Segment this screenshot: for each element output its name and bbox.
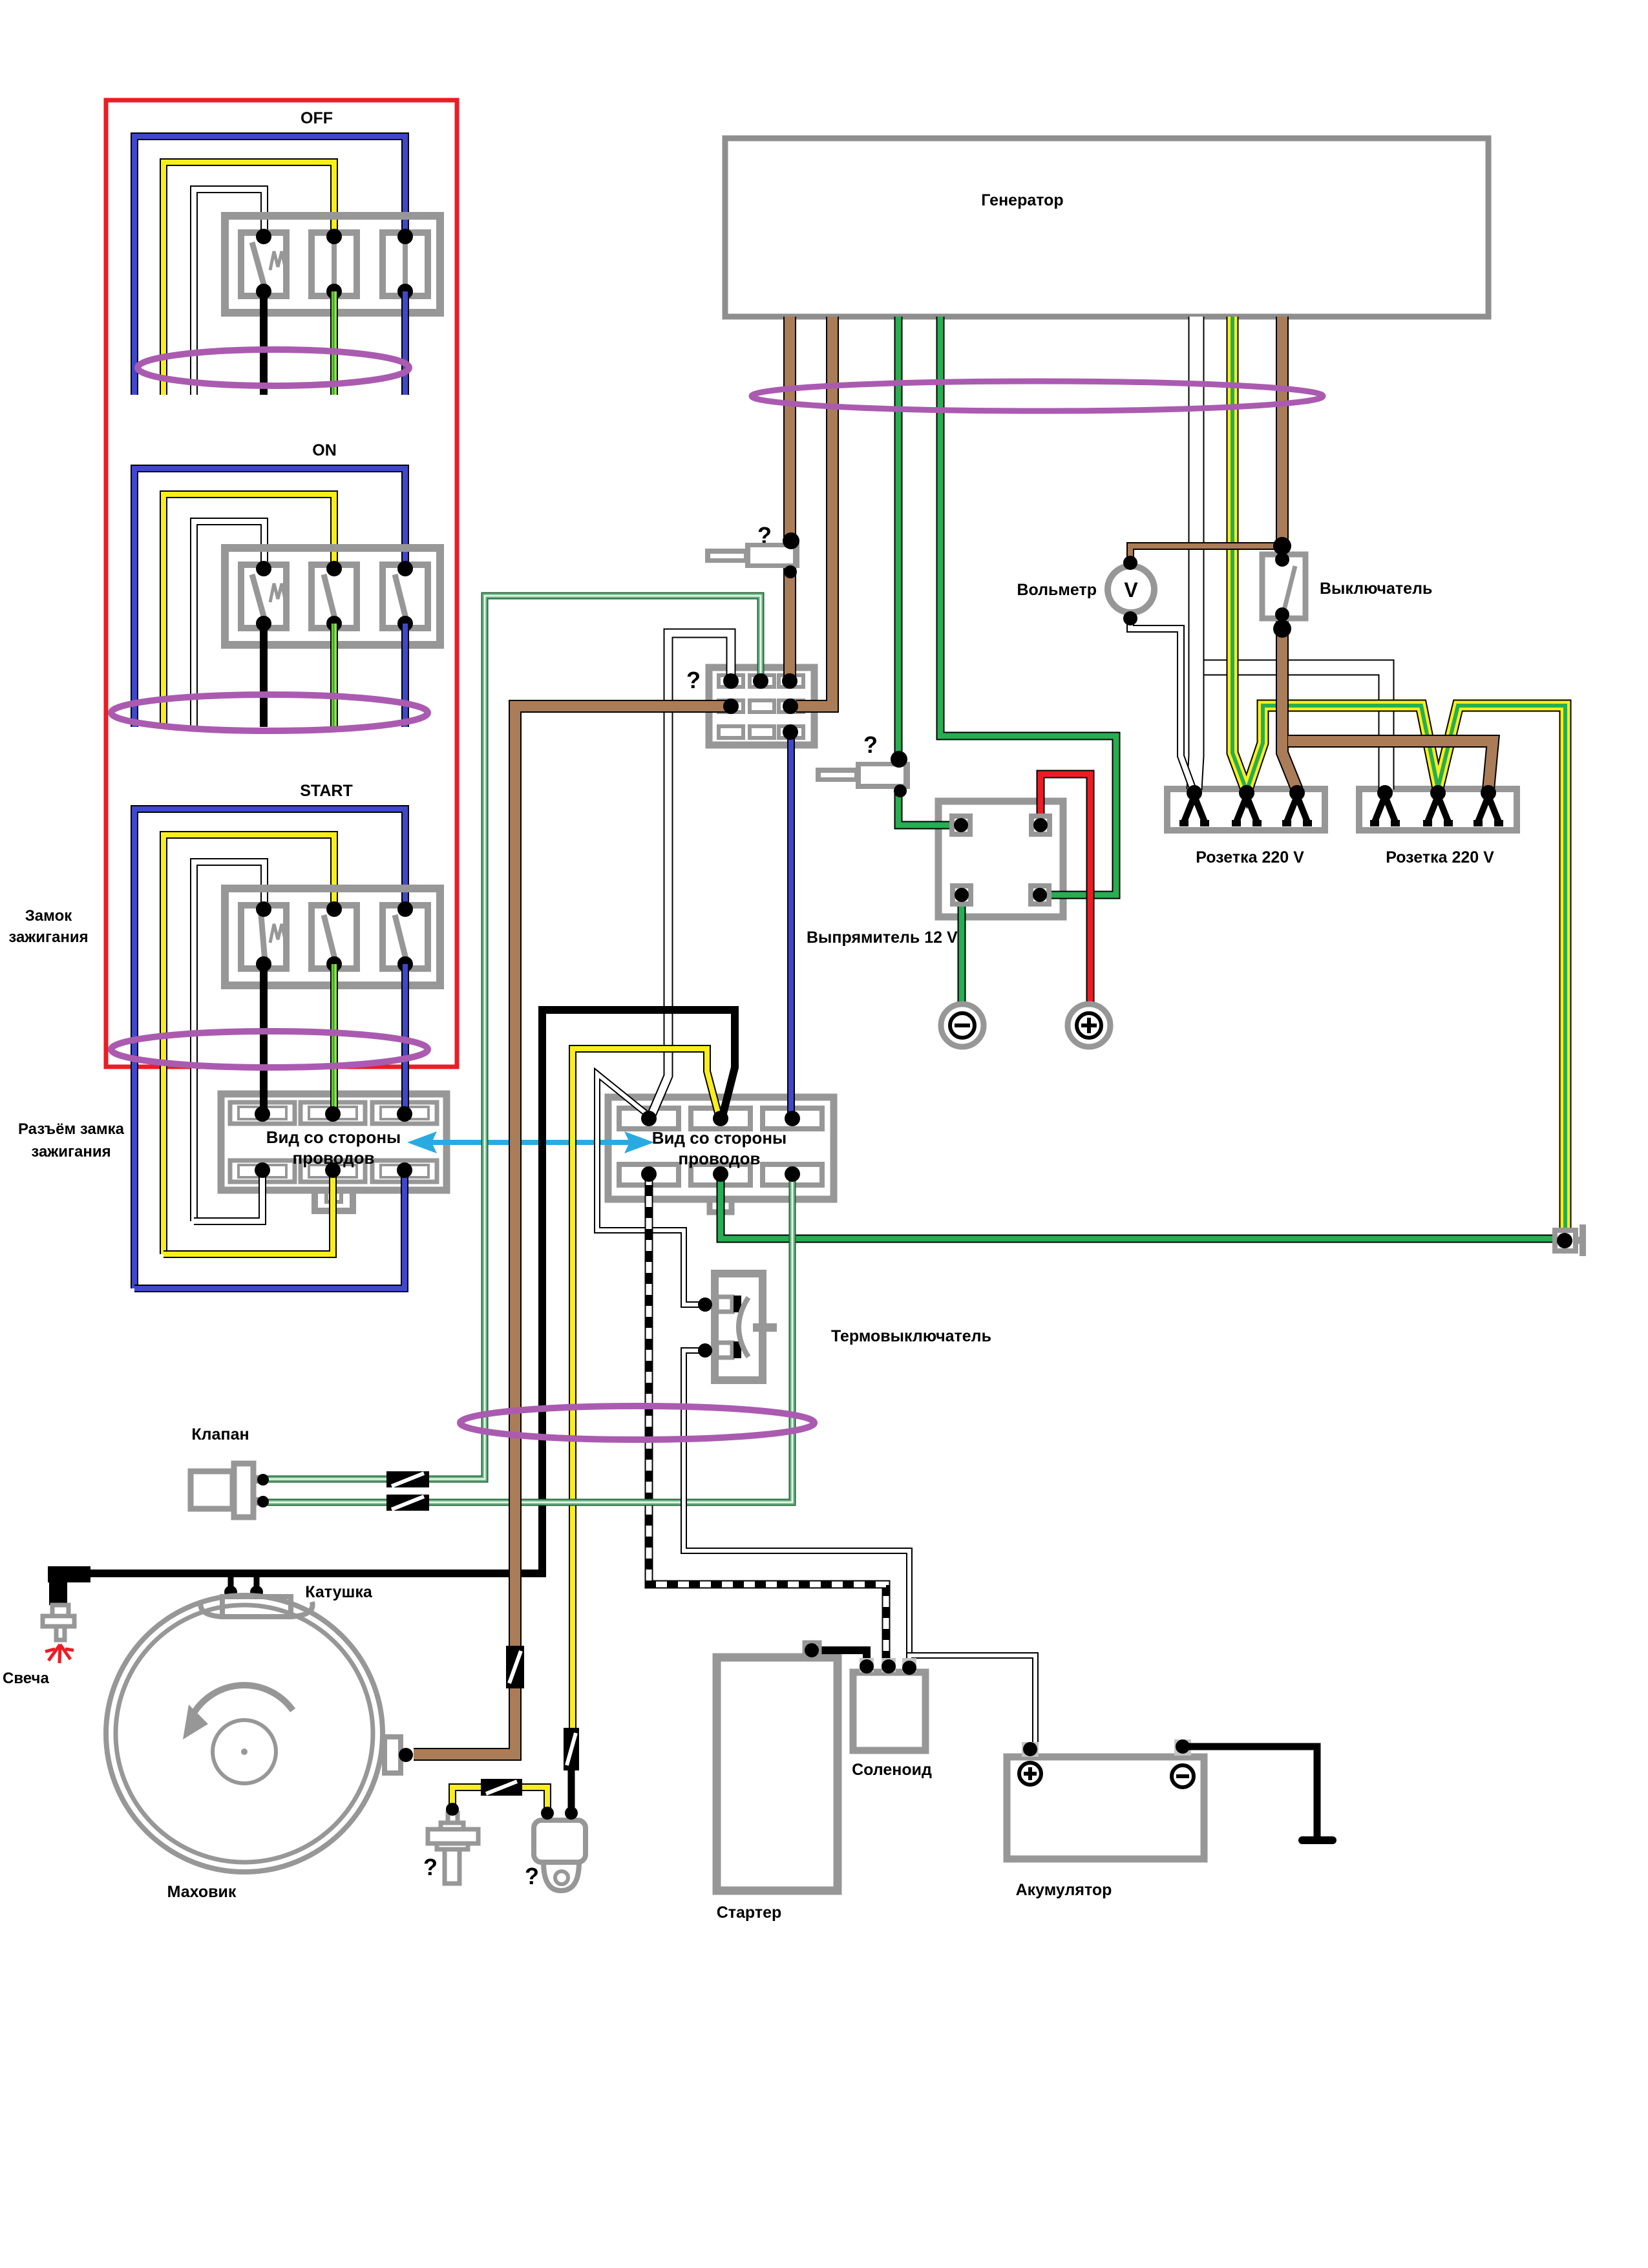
wire white voltmeter to socket1 (1130, 618, 1193, 790)
fuse on yellow wire vertical (564, 1728, 579, 1770)
label Маховик (167, 1883, 237, 1901)
oil sensor (428, 1813, 478, 1884)
wire brown 2 generator to 8pin connector (796, 317, 832, 706)
wire black from contact 1 START (260, 964, 268, 1114)
label Соленоид (852, 1761, 932, 1779)
ignition lock red frame (106, 100, 457, 1067)
label ? bullet connector 2 (863, 731, 878, 758)
coil wires down (231, 1573, 257, 1591)
wire yellow frame ON (164, 494, 334, 727)
svg-text:зажигания: зажигания (8, 929, 88, 946)
socket 1 box (1167, 789, 1325, 830)
voltmeter pins (1123, 556, 1137, 625)
fuse on valve wire 1 (386, 1471, 429, 1487)
wire white frame OFF (194, 189, 264, 395)
wire brown voltmeter to switch (1130, 546, 1282, 561)
wire brown 3 generator to switch and sockets (1282, 317, 1493, 790)
switch contact 2 START (312, 901, 357, 972)
purple harness ellipse OFF (138, 350, 409, 386)
valve pins (257, 1474, 269, 1507)
svg-text:Разъём замка: Разъём замка (18, 1120, 125, 1138)
wire yellow-green generator to sockets (1232, 317, 1565, 1232)
solenoid box (853, 1658, 925, 1750)
rectifier pins (954, 818, 1048, 902)
switch contact 1 OFF (241, 229, 286, 299)
wire pale green valve to 8pin (262, 596, 761, 1479)
switch contact 1 START (241, 901, 286, 972)
spark plug body (43, 1605, 74, 1640)
svg-text:Свеча: Свеча (3, 1670, 49, 1687)
socket 2 prongs (1370, 796, 1503, 823)
spark plug cap (48, 1566, 90, 1605)
svg-text:START: START (300, 782, 352, 800)
wire green connector2 to right connector (721, 1174, 1556, 1239)
switch Выключатель (1262, 554, 1305, 618)
switch contact 2 ON (312, 561, 357, 631)
svg-text:Стартер: Стартер (717, 1904, 782, 1922)
connector2 body (608, 1097, 834, 1199)
right connector pin (1557, 1233, 1572, 1248)
wire blue 8pin to connector2 (787, 732, 795, 1118)
label Розетка 220 V socket1 (1196, 848, 1304, 866)
connector1 label (266, 1128, 401, 1168)
8pin connector body (709, 667, 814, 745)
terminal plus (1068, 1004, 1110, 1047)
svg-text:?: ? (423, 1854, 438, 1880)
wire yellow ignition to capsule (573, 1049, 719, 1728)
switch contact 3 ON (383, 561, 428, 631)
rectifier box (938, 801, 1063, 917)
purple harness ellipse ON (111, 695, 428, 731)
purple harness ellipse middle (460, 1406, 814, 1440)
wire green 2 generator to rectifier (940, 317, 1116, 895)
wire white frame ON (194, 521, 264, 727)
socket 1 pins (1187, 785, 1305, 801)
label Катушка (305, 1583, 373, 1601)
switch pins (1273, 537, 1291, 638)
label OFF (301, 109, 333, 127)
wire green rectifier to minus (958, 895, 966, 1005)
svg-text:V: V (1124, 578, 1138, 602)
wire brown 1 generator to connector (783, 317, 796, 681)
wire black below yellow fuse (568, 1770, 575, 1813)
wire white frame START (194, 862, 264, 1221)
wire white thin loop to thermal switch (597, 1074, 701, 1305)
wire white 8pin to connector2 (651, 633, 731, 1115)
wire blue return loop connector to lock (134, 1170, 405, 1288)
wire black from contact 1 OFF (260, 291, 268, 395)
label Генератор (981, 191, 1063, 209)
label ? 8pin connector (686, 667, 701, 693)
wire yellow frame OFF (164, 162, 334, 395)
thermal switch body (715, 1274, 777, 1380)
wire white branch to socket2 (1192, 667, 1386, 790)
starter box (717, 1657, 838, 1891)
label ON (312, 441, 337, 459)
blue double arrow between connectors (407, 1131, 654, 1153)
svg-text:проводов: проводов (678, 1149, 760, 1168)
svg-text:Выпрямитель 12 V: Выпрямитель 12 V (807, 929, 958, 947)
ignition switch block OFF (225, 216, 440, 313)
svg-text:Генератор: Генератор (981, 191, 1063, 209)
wire green 1 generator to rectifier (898, 317, 952, 825)
label Клапан (191, 1425, 249, 1444)
wire dashed black-white starter signal (649, 1174, 886, 1666)
ignition lock connector body (221, 1094, 447, 1190)
generator box (725, 138, 1488, 317)
label Разъём замка зажигания (18, 1120, 125, 1160)
connector1 pins (255, 1106, 412, 1178)
label Замок зажигания (8, 907, 88, 946)
connector1 key tab (312, 1190, 356, 1212)
svg-text:Катушка: Катушка (305, 1583, 373, 1601)
label Термовыключатель (831, 1327, 991, 1345)
wire black starter to solenoid (812, 1650, 867, 1664)
flywheel terminal (385, 1737, 401, 1773)
fuse on brown wire (506, 1646, 524, 1688)
capsule body (534, 1814, 586, 1891)
bullet connector 2 on green wire (816, 762, 910, 789)
starter terminal (805, 1643, 819, 1657)
svg-text:Маховик: Маховик (167, 1883, 237, 1901)
switch contact 2 OFF (312, 229, 357, 299)
label Выпрямитель 12 V (807, 929, 958, 947)
wire brown 8pin to flywheel (414, 706, 727, 1754)
sensor pin (446, 1803, 459, 1816)
svg-text:Клапан: Клапан (191, 1425, 249, 1444)
wire blue from contact 3 START (401, 964, 409, 1114)
coil pins (224, 1586, 263, 1599)
svg-text:?: ? (525, 1863, 539, 1889)
fuse on valve wire 2 (386, 1495, 429, 1511)
valve body (191, 1464, 260, 1517)
svg-text:Замок: Замок (25, 907, 72, 925)
fuse on yellow wire horizontal (481, 1779, 522, 1796)
socket 1 prongs (1179, 796, 1312, 823)
label Акумулятор (1016, 1881, 1112, 1899)
solenoid pins (860, 1659, 916, 1675)
wire blue frame START (134, 809, 405, 1288)
terminal minus (941, 1004, 984, 1047)
rectifier terminals (952, 816, 1050, 904)
thermal switch pins (698, 1297, 712, 1358)
right edge bullet connector (1555, 1224, 1586, 1256)
wire black battery to ground (1183, 1747, 1317, 1838)
wire yellow capsule to sensor (452, 1787, 547, 1813)
svg-text:Вид со стороны: Вид со стороны (266, 1128, 401, 1147)
purple harness ellipse generator (752, 381, 1323, 411)
svg-text:ON: ON (312, 441, 337, 459)
wire blue from contact 3 OFF (401, 291, 409, 395)
svg-text:?: ? (686, 667, 701, 693)
flywheel terminal pin (399, 1748, 413, 1762)
label Розетка 220 V socket2 (1386, 848, 1494, 866)
wire white return loop connector to lock (194, 1170, 262, 1221)
flywheel (106, 1595, 383, 1872)
socket 2 box (1359, 789, 1517, 830)
8pin connector pins (723, 673, 798, 740)
label Свеча (3, 1670, 49, 1687)
socket 2 pins (1377, 785, 1496, 801)
ignition switch block START (225, 888, 440, 985)
label ? capsule (525, 1863, 539, 1889)
wire black coil to connector2 (82, 1010, 735, 1573)
starter pin (805, 1643, 819, 1657)
flywheel rotation arrow (183, 1685, 293, 1739)
connector2 pins (641, 1111, 800, 1182)
battery box (1007, 1739, 1204, 1859)
wire blue from contact 3 ON (401, 624, 409, 727)
wire pale green connector2 to valve (262, 1174, 792, 1502)
purple harness ellipse START (111, 1031, 428, 1067)
spark symbol (45, 1644, 74, 1663)
svg-text:Розетка 220 V: Розетка 220 V (1386, 848, 1494, 866)
wire black from contact 1 ON (260, 624, 268, 727)
wire yellow return loop connector to lock (164, 1170, 333, 1254)
battery pins (1023, 1739, 1190, 1756)
label ? bullet connector 1 (757, 522, 772, 549)
switch contact 3 OFF (383, 229, 428, 299)
wire yellow-green from contact 2 OFF (333, 291, 334, 395)
svg-text:Вид со стороны: Вид со стороны (652, 1128, 787, 1148)
wire yellow frame START (164, 835, 334, 1254)
svg-text:OFF: OFF (301, 109, 333, 127)
label ? sensor (423, 1854, 438, 1880)
switch contact 3 START (383, 901, 428, 972)
junction pins bullet connector 1 (783, 532, 799, 578)
ignition coil (200, 1597, 312, 1617)
svg-text:Акумулятор: Акумулятор (1016, 1881, 1112, 1899)
wire white thermal switch to solenoid (684, 1350, 909, 1661)
wire yellow-green from contact 2 ON (333, 624, 334, 727)
ignition switch block ON (225, 548, 440, 645)
label Выключатель (1320, 580, 1432, 598)
wire white generator to socket1 (1194, 317, 1196, 790)
bullet connector 1 on brown wire (705, 543, 799, 568)
voltmeter (1108, 566, 1154, 613)
connector2 label (652, 1128, 787, 1168)
connector2 key tab (707, 1199, 734, 1215)
svg-text:Розетка 220 V: Розетка 220 V (1196, 848, 1304, 866)
label Стартер (717, 1904, 782, 1922)
wire blue frame ON (134, 468, 405, 727)
wire white solenoid to battery plus (909, 1655, 1035, 1745)
label Вольметр (1017, 581, 1097, 599)
wire blue frame OFF (134, 136, 405, 395)
svg-text:Соленоид: Соленоид (852, 1761, 932, 1779)
svg-text:Вольметр: Вольметр (1017, 581, 1097, 599)
svg-text:Выключатель: Выключатель (1320, 580, 1432, 598)
battery minus symbol (1172, 1765, 1194, 1787)
capsule pins (541, 1807, 578, 1820)
svg-text:Термовыключатель: Термовыключатель (831, 1327, 991, 1345)
junction pins bullet connector 2 (891, 751, 907, 797)
wire red rectifier to plus (1041, 774, 1090, 1005)
svg-text:зажигания: зажигания (31, 1143, 111, 1160)
label START (300, 782, 352, 800)
ground symbol (1302, 1836, 1333, 1844)
wire yellow-green from contact 2 START (333, 964, 334, 1114)
battery plus symbol (1019, 1763, 1041, 1785)
switch contact 1 ON (241, 561, 286, 631)
svg-text:?: ? (863, 731, 878, 758)
